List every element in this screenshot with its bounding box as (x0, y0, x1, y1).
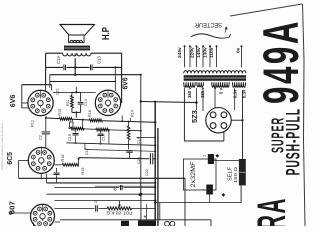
svg-text:5Z3: 5Z3 (190, 110, 199, 123)
svg-text:POT. 83 K.Ω: POT. 83 K.Ω (106, 211, 133, 216)
svg-text:C16: C16 (102, 134, 106, 141)
svg-text:C15: C15 (68, 134, 72, 141)
svg-text:145v: 145v (196, 47, 202, 58)
svg-text:collection schemas radio ancie: collection schemas radio anciennes (0, 122, 4, 170)
svg-text:R14: R14 (131, 110, 135, 117)
svg-text:R12: R12 (31, 120, 35, 127)
svg-text:C13: C13 (56, 56, 61, 64)
svg-text:R16: R16 (88, 110, 92, 117)
svg-text:C21: C21 (56, 88, 60, 95)
svg-text:2x32MF: 2x32MF (191, 161, 197, 187)
svg-text:130v: 130v (203, 47, 209, 58)
svg-text:R18: R18 (61, 155, 65, 162)
svg-text:C13: C13 (97, 56, 102, 64)
svg-text:6C5: 6C5 (5, 152, 14, 165)
svg-text:R15: R15 (58, 109, 62, 116)
svg-text:380 v: 380 v (187, 87, 192, 98)
svg-text:5 v: 5 v (218, 87, 223, 94)
svg-text:RA: RA (250, 197, 294, 226)
svg-text:220v: 220v (189, 47, 195, 58)
svg-text:C20: C20 (137, 157, 141, 164)
svg-text:C2: C2 (39, 135, 43, 140)
svg-text:6V6: 6V6 (121, 77, 130, 89)
svg-text:R19: R19 (81, 168, 85, 175)
svg-text:+: + (144, 215, 147, 221)
svg-text:SECTEUR: SECTEUR (195, 21, 222, 28)
svg-text:C22: C22 (145, 169, 149, 176)
svg-text:C17: C17 (85, 148, 89, 155)
svg-text:R11: R11 (66, 99, 70, 106)
svg-text:150 Ω: 150 Ω (233, 166, 238, 183)
svg-text:949A: 949A (253, 19, 309, 104)
svg-text:SUPER: SUPER (268, 117, 288, 153)
svg-text:110v: 110v (209, 47, 215, 58)
svg-text:6V6: 6V6 (8, 95, 17, 108)
svg-text:H.P: H.P (100, 27, 112, 40)
svg-text:0v: 0v (236, 47, 242, 53)
svg-text:C19: C19 (137, 137, 141, 144)
svg-text:C14: C14 (84, 99, 88, 106)
svg-text:6,3v: 6,3v (233, 89, 238, 98)
svg-text:245v: 245v (177, 47, 183, 58)
